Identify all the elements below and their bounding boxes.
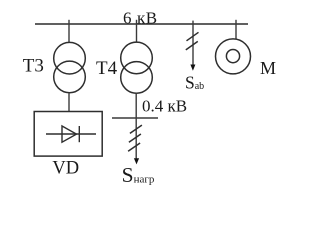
wire T4 down through 0.4 kV bus to load arrow	[135, 93, 137, 158]
svg-text:0.4 кВ: 0.4 кВ	[142, 96, 187, 115]
wire bus to Sab feeder	[192, 21, 194, 66]
transformer T3	[54, 42, 86, 92]
arrow Sab	[190, 65, 195, 71]
diode inside VD	[46, 126, 96, 142]
transformer T4	[121, 42, 153, 93]
motor M outer circle	[216, 39, 251, 74]
arrow Sнагр	[134, 158, 139, 164]
bus 6 kV	[35, 23, 248, 25]
bus 0.4 kV	[112, 117, 158, 119]
wire T3 to VD	[68, 93, 70, 111]
svg-text:VD: VD	[52, 159, 79, 179]
svg-text:T3: T3	[23, 55, 44, 76]
slashes on feeder Sab	[186, 32, 199, 50]
motor M inner circle	[226, 50, 239, 63]
svg-text:6 кВ: 6 кВ	[123, 9, 158, 28]
wire bus to T3	[68, 20, 70, 43]
svg-text:M: M	[260, 58, 276, 78]
rectifier block VD	[34, 112, 102, 157]
slashes on load feeder Sнагр	[128, 125, 142, 151]
svg-text:T4: T4	[96, 58, 118, 79]
wire bus to motor	[235, 20, 237, 39]
wire bus to T4	[136, 20, 138, 43]
